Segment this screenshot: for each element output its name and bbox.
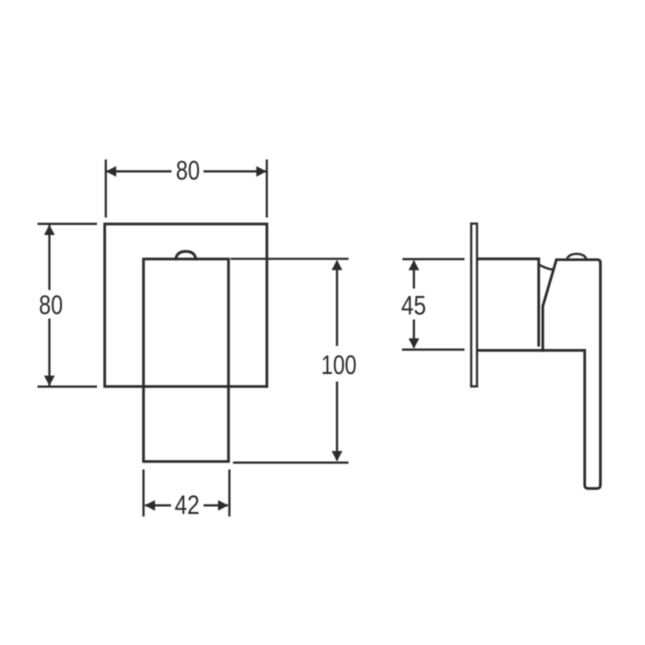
dim 42: right arrowhead	[218, 500, 228, 511]
dim 100: up arrowhead	[332, 260, 343, 270]
dim 80 top: right extension line	[266, 160, 268, 218]
dim 80 left: bottom extension line	[38, 386, 98, 388]
dim 80 left: dimension line lower segment	[48, 319, 50, 386]
dim 100 right: dimension line upper segment	[336, 261, 338, 346]
dim 80 left: dimension line upper segment	[48, 225, 50, 290]
dim 42 bottom: left extension line	[142, 470, 144, 517]
svg-text:80: 80	[176, 156, 200, 186]
dim 45: down arrowhead	[409, 338, 420, 348]
side view: valve body top edge	[478, 258, 539, 261]
front view: dome cap on top of handle	[176, 251, 196, 259]
side view: body bottom / step line	[478, 349, 585, 352]
dim 42 bottom: dimension line left segment	[145, 504, 171, 506]
dim 42 bottom: right extension line	[228, 470, 230, 517]
dim 42 bottom: dimension line right segment	[204, 504, 229, 506]
dim 80 left: top extension line	[38, 223, 98, 225]
dim 80 left: down arrowhead	[44, 376, 55, 386]
dim 80 top: left extension line	[105, 160, 107, 218]
dim 80 top: right arrowhead	[256, 166, 266, 177]
dim 80 left: up arrowhead	[44, 225, 55, 235]
dim 45 side: dimension line upper segment	[413, 261, 415, 289]
dim 100: down arrowhead	[332, 451, 343, 461]
side view: bonnet curve	[539, 265, 553, 270]
dim 80 top: left arrowhead	[106, 166, 116, 177]
dim 45 side: dimension line lower segment	[413, 320, 415, 348]
svg-text:100: 100	[321, 350, 357, 380]
dim 100 right: top leader line	[231, 258, 349, 260]
side view: valve body right edge	[537, 259, 540, 345]
svg-text:80: 80	[39, 290, 63, 320]
svg-text:42: 42	[175, 490, 200, 520]
dim 100 right: bottom leader line	[233, 462, 349, 464]
dim 42: left arrowhead	[145, 500, 155, 511]
side view: handle outline with lever	[543, 260, 601, 489]
dim 100 right: dimension line lower segment	[336, 382, 338, 461]
dim 80 top: dimension line left segment	[107, 170, 172, 172]
dim 45 side: bottom extension line	[402, 349, 465, 351]
svg-text:45: 45	[401, 291, 426, 321]
front view: wall plate square	[105, 224, 267, 387]
side view: dome cap on handle	[567, 254, 587, 260]
front view: handle body rectangle	[144, 259, 229, 462]
dim 80 top: dimension line right segment	[204, 170, 267, 172]
side view: wall plate profile	[471, 224, 477, 387]
dim 45 side: top extension line	[403, 258, 465, 260]
dim 45: up arrowhead	[409, 260, 420, 270]
